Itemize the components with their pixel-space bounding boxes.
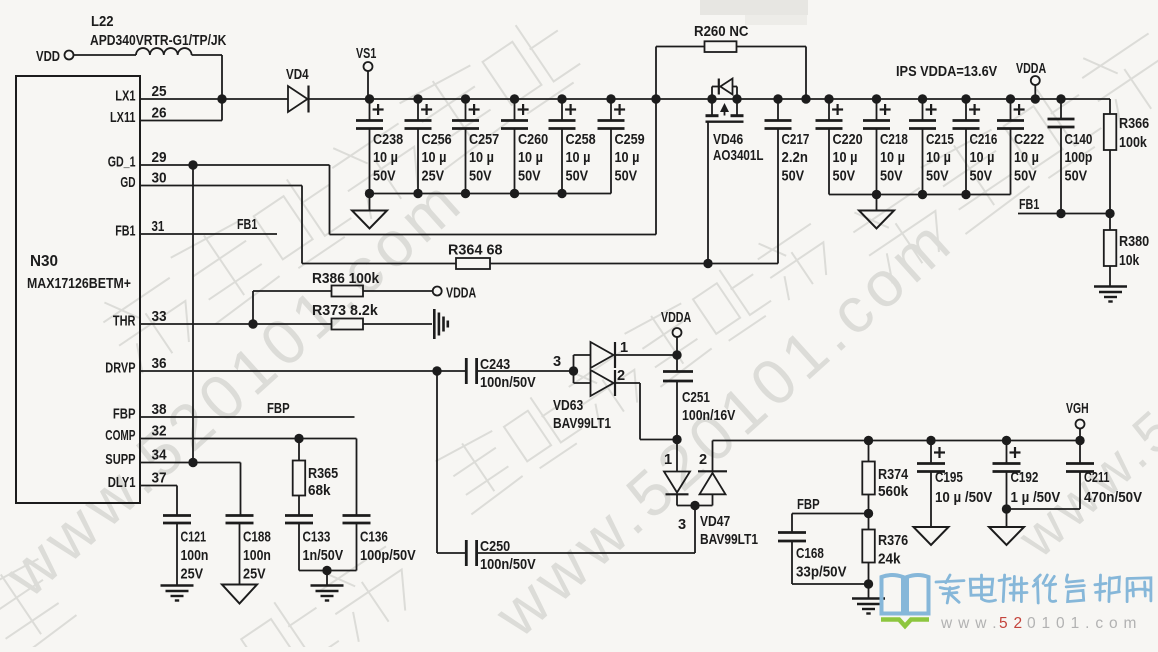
svg-text:C256: C256 <box>422 132 452 148</box>
wire R260 left leg <box>656 46 705 48</box>
svg-text:1: 1 <box>664 452 672 468</box>
node junction VD46 gate <box>703 259 712 268</box>
wire main VS1 rail <box>368 98 1110 100</box>
logo book icon <box>882 575 929 614</box>
capacitor C215 10 µ 50V <box>918 94 927 103</box>
svg-text:100n/50V: 100n/50V <box>480 375 536 391</box>
svg-text:10 µ: 10 µ <box>615 150 640 166</box>
resistor R380 10k <box>1104 230 1117 266</box>
wire pin 33 THR <box>140 323 332 325</box>
svg-text:50V: 50V <box>615 168 638 184</box>
capacitor C256 10 µ 25V <box>413 94 422 103</box>
svg-text:C211: C211 <box>1084 470 1110 486</box>
wire C121 to ground <box>176 523 178 585</box>
svg-text:0 1 0 1 . c o m: 0 1 0 1 . c o m <box>1027 615 1137 632</box>
svg-text:BAV99LT1: BAV99LT1 <box>553 416 611 432</box>
resistor R365 68k <box>298 439 300 461</box>
capacitor C195 10u/50V <box>926 436 935 445</box>
wire bottom rail of C238..C259 bank <box>370 193 612 195</box>
node junction below C251 <box>672 435 681 444</box>
capacitor C243 100n/50V <box>465 358 468 384</box>
svg-text:10 µ /50V: 10 µ /50V <box>935 490 993 506</box>
svg-text:10 µ: 10 µ <box>469 150 494 166</box>
svg-text:30: 30 <box>152 171 167 187</box>
wire long vertical GD_1 to SUPP <box>192 165 194 463</box>
svg-text:IPS VDDA=13.6V: IPS VDDA=13.6V <box>896 64 997 80</box>
svg-text:50V: 50V <box>469 168 492 184</box>
svg-text:3: 3 <box>678 517 686 533</box>
capacitor C136 <box>343 514 371 517</box>
svg-text:50V: 50V <box>373 168 396 184</box>
svg-text:C251: C251 <box>682 390 710 406</box>
svg-text:FB1: FB1 <box>115 224 135 240</box>
capacitor C216 10 µ 50V <box>961 94 970 103</box>
wire C188 to ground <box>239 523 241 585</box>
svg-text:BAV99LT1: BAV99LT1 <box>700 532 758 548</box>
svg-text:VD47: VD47 <box>700 514 730 530</box>
svg-text:C121: C121 <box>181 530 207 546</box>
svg-text:10 µ: 10 µ <box>373 150 398 166</box>
svg-text:L22: L22 <box>91 14 114 30</box>
capacitor C222 10 µ 50V <box>1006 94 1015 103</box>
ground below R380 <box>1094 285 1127 287</box>
svg-text:VGH: VGH <box>1066 401 1089 417</box>
wire R364 to VD46 gate and C217 <box>490 263 778 265</box>
svg-text:C259: C259 <box>615 132 645 148</box>
wire pin 29 GD_1 <box>140 164 330 166</box>
svg-text:25: 25 <box>152 84 167 100</box>
svg-text:SUPP: SUPP <box>105 452 135 468</box>
wire VGH rail <box>713 440 1081 442</box>
svg-text:50V: 50V <box>518 168 541 184</box>
svg-text:10 µ: 10 µ <box>970 150 995 166</box>
wire pin 32 COMP <box>140 438 357 440</box>
svg-text:VS1: VS1 <box>356 46 376 62</box>
capacitor C133 <box>285 514 313 517</box>
svg-text:3: 3 <box>553 354 561 370</box>
wire VD47 common pin 3 <box>677 505 713 507</box>
svg-text:APD340VRTR-G1/TP/JK: APD340VRTR-G1/TP/JK <box>90 33 227 49</box>
capacitor C259 10 µ 50V <box>606 94 615 103</box>
svg-text:VDD: VDD <box>36 49 60 65</box>
svg-text:GD_1: GD_1 <box>108 155 136 171</box>
capacitor C188 <box>226 514 254 517</box>
node junction C238 ground <box>365 189 374 198</box>
wire pin 37 DLY1 <box>140 485 177 487</box>
wire R260 right leg <box>737 46 807 48</box>
svg-text:C140: C140 <box>1065 132 1093 148</box>
svg-text:R365: R365 <box>308 466 338 482</box>
svg-text:100p: 100p <box>1065 150 1093 166</box>
svg-text:VD46: VD46 <box>713 132 743 148</box>
svg-text:C192: C192 <box>1011 470 1039 486</box>
node junction bottom rail <box>413 189 422 198</box>
svg-text:33p/50V: 33p/50V <box>796 565 847 581</box>
node junction VDDA-C251 <box>672 350 681 359</box>
node junction C192-C211 bottom <box>1002 504 1011 513</box>
svg-text:100n: 100n <box>243 548 271 564</box>
node junction bottom rail right bank <box>961 190 970 199</box>
svg-text:560k: 560k <box>878 484 909 500</box>
svg-text:VD63: VD63 <box>553 398 583 414</box>
svg-text:C168: C168 <box>796 546 824 562</box>
node junction LX <box>217 94 226 103</box>
IC N30 MAX17126BETM+ <box>16 76 140 503</box>
svg-text:100n/50V: 100n/50V <box>480 557 536 573</box>
svg-text:VDDA: VDDA <box>661 310 692 326</box>
transistor VD46 AO3401L with body diode <box>707 94 716 103</box>
svg-text:10 µ: 10 µ <box>1014 150 1039 166</box>
ground below C192 <box>989 527 1024 545</box>
wire pin 31 FB1 stub <box>140 233 277 235</box>
wire bottom rail of C220..C222 bank <box>829 194 1011 196</box>
svg-text:100n/16V: 100n/16V <box>682 408 736 424</box>
wire GD to R364 <box>302 263 456 265</box>
wire LX to VD4 anode <box>222 98 288 100</box>
ground below C218 <box>876 195 878 211</box>
wire VDD to L22 <box>74 54 137 56</box>
svg-text:COMP: COMP <box>105 428 135 444</box>
wire C243 to node 3 <box>477 370 574 372</box>
node junction C133-C136 ground <box>322 566 331 575</box>
svg-text:2: 2 <box>699 452 707 468</box>
capacitor C220 10 µ 50V <box>824 94 833 103</box>
wire C250 to VD47 pin3 <box>477 552 695 554</box>
wire VD4 cathode to VS1 rail <box>309 98 369 100</box>
ground signal bars at THR <box>433 309 436 339</box>
capacitor C168 33p/50V <box>778 531 806 534</box>
svg-text:1n/50V: 1n/50V <box>303 548 344 564</box>
svg-text:C188: C188 <box>243 530 271 546</box>
node junction THR <box>248 319 257 328</box>
svg-text:THR: THR <box>113 314 136 330</box>
svg-text:C238: C238 <box>373 132 403 148</box>
node junction SUPP <box>188 458 197 467</box>
svg-text:R364 68: R364 68 <box>448 243 503 259</box>
wire pin 38 FBP stub <box>140 416 355 418</box>
svg-text:C215: C215 <box>926 132 954 148</box>
capacitor C218 10 µ 50V <box>872 94 881 103</box>
wire GD_1 down-over to R260 column <box>329 165 331 235</box>
svg-text:C258: C258 <box>566 132 596 148</box>
wire pin 25 LX1 <box>140 98 222 100</box>
svg-text:25V: 25V <box>422 168 445 184</box>
svg-text:C136: C136 <box>360 530 388 546</box>
capacitor C238 10 µ 50V <box>365 94 374 103</box>
svg-text:R373 8.2k: R373 8.2k <box>312 303 379 319</box>
svg-text:AO3401L: AO3401L <box>713 148 764 164</box>
resistor R374 560k <box>864 436 873 445</box>
svg-text:C257: C257 <box>469 132 499 148</box>
node junction DRVP <box>432 366 441 375</box>
svg-text:50V: 50V <box>833 168 856 184</box>
svg-text:10 µ: 10 µ <box>422 150 447 166</box>
wire DRVP junction down to C250 <box>436 371 438 553</box>
wire L22 to LX node <box>192 54 222 56</box>
svg-text:50V: 50V <box>926 168 949 184</box>
svg-text:100n: 100n <box>181 548 209 564</box>
wire FBP net to C168 <box>792 513 869 515</box>
svg-text:50V: 50V <box>880 168 903 184</box>
svg-text:R366: R366 <box>1119 116 1149 132</box>
node junction bottom rail right bank <box>918 190 927 199</box>
svg-text:FB1: FB1 <box>237 217 257 233</box>
ground below C133/C136 <box>311 584 344 586</box>
capacitor C251 100n/16V <box>676 355 678 372</box>
svg-text:10 µ: 10 µ <box>518 150 543 166</box>
svg-text:10 µ: 10 µ <box>926 150 951 166</box>
node junction GD_1 column <box>188 160 197 169</box>
capacitor C250 100n/50V <box>465 540 468 566</box>
resistor R376 24k <box>868 514 870 530</box>
wire pin 26 LX11 <box>140 120 222 122</box>
capacitor C257 10 µ 50V <box>461 94 470 103</box>
node junction R376-C168-ground <box>864 579 873 588</box>
svg-text:w w w .: w w w . <box>940 615 997 632</box>
resistor R366 100k <box>1109 99 1111 114</box>
svg-text:10k: 10k <box>1119 253 1140 269</box>
ground below C121 <box>161 584 194 586</box>
diode VD63 pin2 branch <box>574 382 591 384</box>
svg-text:50V: 50V <box>782 168 805 184</box>
svg-text:LX11: LX11 <box>110 110 136 126</box>
svg-text:26: 26 <box>152 106 167 122</box>
svg-text:VDDA: VDDA <box>446 286 477 302</box>
capacitor C217 2.2n 50V <box>773 94 782 103</box>
svg-text:37: 37 <box>152 471 167 487</box>
svg-text:C133: C133 <box>303 530 331 546</box>
node junction bottom rail <box>461 189 470 198</box>
svg-text:GD: GD <box>120 175 135 191</box>
svg-text:36: 36 <box>152 356 167 372</box>
logo text jiadian weixiu ziliao wang <box>936 575 964 603</box>
svg-text:DLY1: DLY1 <box>108 475 136 491</box>
node junction COMP-R365 <box>294 434 303 443</box>
svg-text:470n/50V: 470n/50V <box>1084 490 1142 506</box>
node junction bottom rail right bank <box>872 190 881 199</box>
svg-text:R374: R374 <box>878 467 909 483</box>
svg-text:50V: 50V <box>1014 168 1037 184</box>
ground below C238 <box>369 194 371 211</box>
diode VD63 pin1 branch <box>574 354 591 356</box>
svg-text:MAX17126BETM+: MAX17126BETM+ <box>27 275 131 292</box>
svg-text:VDDA: VDDA <box>1016 61 1047 77</box>
svg-text:C220: C220 <box>833 132 863 148</box>
node junction rail R260-left <box>651 94 660 103</box>
capacitor C121 <box>163 514 191 517</box>
svg-text:R376: R376 <box>878 533 908 549</box>
svg-text:38: 38 <box>152 402 167 418</box>
svg-text:C222: C222 <box>1014 132 1044 148</box>
svg-text:C195: C195 <box>935 470 963 486</box>
svg-text:C218: C218 <box>880 132 908 148</box>
capacitor C260 10 µ 50V <box>510 94 519 103</box>
svg-text:25V: 25V <box>181 567 204 583</box>
decorative watermarks omitted from labelling <box>0 163 477 611</box>
svg-text:31: 31 <box>152 219 165 235</box>
svg-text:10 µ: 10 µ <box>833 150 858 166</box>
svg-text:C217: C217 <box>782 132 810 148</box>
svg-text:C216: C216 <box>970 132 998 148</box>
svg-text:FBP: FBP <box>797 497 820 513</box>
wire pin 30 GD <box>140 185 302 187</box>
wire pin 36 DRVP <box>140 370 466 372</box>
node junction bottom rail <box>510 189 519 198</box>
node VDDA terminal mid <box>433 287 442 296</box>
wire C133/C136 bottoms <box>298 523 300 571</box>
svg-text:68k: 68k <box>308 483 331 499</box>
svg-text:N30: N30 <box>30 253 58 270</box>
svg-text:2.2n: 2.2n <box>782 150 808 166</box>
capacitor C258 10 µ 50V <box>557 94 566 103</box>
svg-text:C260: C260 <box>518 132 548 148</box>
node junction FBP-R374-R376 <box>864 509 873 518</box>
svg-text:FB1: FB1 <box>1019 197 1039 213</box>
ground below C188 <box>222 585 257 604</box>
wire VD46 gate down <box>707 122 709 264</box>
svg-text:2: 2 <box>617 368 625 384</box>
capacitor C192 1u/50V <box>1002 436 1011 445</box>
svg-text:24k: 24k <box>878 552 901 568</box>
wire pin 34 SUPP <box>140 462 241 464</box>
svg-text:50V: 50V <box>566 168 589 184</box>
svg-text:DRVP: DRVP <box>105 361 135 377</box>
svg-text:10 µ: 10 µ <box>880 150 905 166</box>
capacitor C140 100p 50V <box>1056 94 1065 103</box>
svg-text:34: 34 <box>152 448 168 464</box>
svg-text:5 2: 5 2 <box>999 615 1023 632</box>
ground below C195 <box>914 527 949 545</box>
svg-text:100p/50V: 100p/50V <box>360 548 416 564</box>
svg-text:R260 NC: R260 NC <box>694 24 749 40</box>
svg-text:VD4: VD4 <box>286 67 309 83</box>
svg-text:29: 29 <box>152 150 167 166</box>
svg-text:25V: 25V <box>243 567 266 583</box>
svg-text:100k: 100k <box>1119 135 1148 151</box>
svg-text:R380: R380 <box>1119 234 1149 250</box>
svg-text:50V: 50V <box>1065 168 1088 184</box>
capacitor C211 470n/50V <box>1079 441 1081 464</box>
node junction rail R260-right <box>801 94 810 103</box>
node junction bottom rail <box>557 189 566 198</box>
svg-text:FBP: FBP <box>113 407 136 423</box>
ground below R376 <box>852 597 885 599</box>
svg-text:1 µ /50V: 1 µ /50V <box>1011 490 1061 506</box>
svg-text:10 µ: 10 µ <box>566 150 591 166</box>
svg-text:1: 1 <box>620 340 628 356</box>
svg-text:33: 33 <box>152 309 167 325</box>
svg-text:32: 32 <box>152 424 167 440</box>
svg-text:FBP: FBP <box>267 401 290 417</box>
svg-text:LX1: LX1 <box>115 89 135 105</box>
svg-text:50V: 50V <box>970 168 993 184</box>
